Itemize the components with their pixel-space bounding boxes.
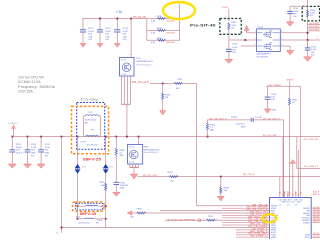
svg-text:STN2: STN2 [305, 234, 310, 236]
svg-text:SMC5/74005: SMC5/74005 [166, 32, 175, 34]
svg-text:PC39: PC39 [232, 44, 238, 46]
svg-text:PFB4: PFB4 [157, 16, 163, 18]
svg-text:4.3K: 4.3K [151, 32, 156, 34]
svg-text:4.7uF: 4.7uF [105, 31, 111, 33]
svg-text:Co-lay: Co-lay [81, 98, 99, 102]
svg-text:VR_VREF_O: VR_VREF_O [250, 236, 268, 238]
svg-text:Patent#100004_0: Patent#100004_0 [144, 151, 159, 154]
svg-text:SMC5/74005: SMC5/74005 [166, 20, 175, 22]
svg-text:PC13: PC13 [105, 28, 111, 30]
svg-text:LX1: LX1 [291, 202, 294, 204]
svg-text:12V for CPU VR: 12V for CPU VR [18, 76, 45, 80]
svg-text:4.3K: 4.3K [151, 42, 156, 44]
svg-text:88FV-45: 88FV-45 [80, 212, 97, 216]
svg-text:PR47: PR47 [208, 216, 214, 218]
svg-text:PFB5: PFB5 [157, 28, 163, 30]
svg-text:7.4A: 7.4A [116, 10, 123, 14]
svg-text:4.7uH: 4.7uH [80, 141, 86, 143]
svg-text:18: 18 [297, 194, 299, 196]
svg-text:6: 6 [281, 44, 282, 46]
svg-text:1: 1 [255, 38, 256, 40]
svg-text:D6.3*7.7: D6.3*7.7 [16, 152, 25, 154]
svg-text:50V: 50V [105, 34, 109, 36]
svg-text:VR_12V_OUT: VR_12V_OUT [143, 175, 159, 177]
svg-text:DMT4408LFG-13: DMT4408LFG-13 [136, 61, 153, 63]
svg-text:VIN_CN_24.5: VIN_CN_24.5 [132, 81, 150, 84]
svg-text:SMC5/74005: SMC5/74005 [166, 42, 175, 44]
svg-text:PRD2: PRD2 [305, 237, 310, 239]
svg-text:PROCHOT: PROCHOT [309, 23, 320, 25]
svg-text:4.3K: 4.3K [151, 20, 156, 22]
svg-text:PROCHOT: PROCHOT [309, 29, 320, 31]
svg-text:6: 6 [281, 38, 282, 40]
svg-text:GND: GND [272, 109, 277, 111]
svg-text:ALC1B CR_PWRGD: ALC1B CR_PWRGD [167, 218, 196, 221]
svg-text:J2: J2 [56, 232, 58, 234]
svg-text:1: 1 [170, 85, 171, 87]
svg-text:PC22: PC22 [16, 144, 22, 146]
svg-text:AUX_G: AUX_G [313, 193, 320, 196]
svg-text:C2: C2 [287, 204, 289, 206]
svg-text:VTT020: VTT020 [221, 7, 228, 9]
svg-text:8 7 6 5: 8 7 6 5 [121, 59, 126, 61]
svg-text:8 7 6 5: 8 7 6 5 [129, 146, 134, 148]
svg-text:VR_CN_L2: VR_CN_L2 [243, 174, 255, 176]
svg-text:1: 1 [255, 31, 256, 33]
svg-text:VR_CO: VR_CO [313, 221, 319, 223]
svg-text:6.3V: 6.3V [16, 150, 21, 152]
svg-text:1: 1 [255, 44, 256, 46]
svg-text:4.7uF: 4.7uF [123, 31, 129, 33]
svg-text:4.7uF: 4.7uF [31, 147, 37, 149]
svg-text:18: 18 [282, 194, 284, 196]
svg-text:ICCMAX:12.9A.: ICCMAX:12.9A. [18, 80, 41, 84]
svg-text:DMT4008LFT-7: DMT4008LFT-7 [257, 53, 272, 55]
svg-text:VIN_CN_24V: VIN_CN_24V [133, 16, 146, 19]
svg-text:50V: 50V [88, 34, 92, 36]
svg-text:10.2*10.5mm: 10.2*10.5mm [79, 223, 91, 225]
svg-text:1: 1 [203, 219, 204, 221]
svg-text:VR_CORE_L2: VR_CORE_L2 [304, 166, 319, 168]
svg-text:8*8: 8*8 [96, 223, 99, 225]
svg-text:18: 18 [287, 194, 289, 196]
svg-text:CS2: CS2 [299, 200, 303, 202]
svg-text:Frequecy: 300KHz: Frequecy: 300KHz [18, 85, 55, 89]
svg-text:C2: C2 [295, 204, 297, 206]
svg-text:SOT-363-3P: SOT-363-3P [257, 56, 269, 58]
svg-text:PQ13: PQ13 [258, 27, 264, 29]
svg-text:1: 1 [80, 217, 81, 219]
svg-text:10.2*10.5mm: 10.2*10.5mm [87, 144, 99, 146]
svg-text:AUX_P: AUX_P [313, 190, 320, 193]
svg-text:PR27: PR27 [177, 79, 183, 81]
svg-text:OCP:25A.: OCP:25A. [18, 89, 34, 93]
svg-text:18: 18 [300, 192, 302, 194]
svg-text:VR_PR: VR_PR [313, 236, 320, 238]
svg-text:Y5B: Y5B [123, 36, 128, 38]
svg-text:JP93: JP93 [109, 166, 113, 168]
svg-text:PC14: PC14 [123, 28, 129, 30]
svg-text:1 2 3 4: 1 2 3 4 [129, 161, 134, 163]
svg-text:2: 2 [217, 219, 218, 221]
svg-text:Patent#100004_0: Patent#100004_0 [136, 63, 153, 66]
svg-text:PR16: PR16 [167, 172, 173, 174]
svg-text:18: 18 [279, 192, 281, 194]
svg-text:PC30: PC30 [31, 144, 37, 146]
svg-text:4.7uF: 4.7uF [45, 147, 51, 149]
svg-text:PC38 1: PC38 1 [231, 117, 239, 119]
svg-text:PFB6: PFB6 [157, 38, 163, 40]
svg-text:2: 2 [95, 217, 96, 219]
svg-text:6: 6 [281, 31, 282, 33]
svg-text:2 0.1uF: 2 0.1uF [255, 117, 263, 119]
svg-text:DMT4408LFG-13: DMT4408LFG-13 [144, 149, 160, 151]
svg-text:VREF: VREF [271, 237, 277, 239]
svg-text:88FV-25: 88FV-25 [83, 158, 101, 162]
svg-text:VR_12V_SW: VR_12V_SW [263, 135, 277, 137]
svg-text:VR_CORE_SW: VR_CORE_SW [303, 139, 318, 141]
svg-text:PC12: PC12 [88, 28, 94, 30]
svg-text:220uF: 220uF [16, 147, 22, 149]
svg-text:PROCHOT: PROCHOT [309, 26, 320, 28]
svg-text:4%: 4% [231, 27, 234, 29]
svg-text:18: 18 [283, 192, 285, 194]
svg-text:Pre-SIT-40: Pre-SIT-40 [190, 23, 216, 27]
svg-text:C2: C2 [279, 204, 281, 206]
svg-text:18: 18 [289, 192, 291, 194]
svg-text:COMP2: COMP2 [303, 222, 310, 224]
svg-text:10.2*10.5mm: 10.2*10.5mm [85, 120, 97, 122]
svg-text:4%: 4% [310, 15, 313, 17]
svg-text:JP92: JP92 [82, 166, 86, 168]
svg-text:Y5B: Y5B [105, 36, 110, 38]
svg-text:PC31: PC31 [45, 144, 51, 146]
svg-text:1 2 3 4: 1 2 3 4 [121, 74, 126, 76]
svg-text:4.7uF: 4.7uF [88, 31, 94, 33]
svg-text:a: a [129, 54, 130, 56]
svg-text:18: 18 [292, 194, 294, 196]
svg-text:22uF 475: 22uF 475 [236, 123, 245, 125]
svg-text:VR_ST: VR_ST [313, 233, 320, 235]
svg-text:Y5B: Y5B [88, 36, 93, 38]
svg-text:50V: 50V [123, 34, 127, 36]
svg-text:PR46: PR46 [137, 209, 143, 211]
